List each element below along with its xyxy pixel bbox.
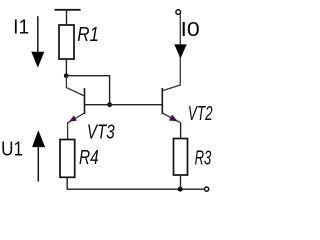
svg-text:R1: R1 [77,23,99,46]
svg-text:I1: I1 [13,16,29,38]
svg-text:R3: R3 [195,147,212,170]
svg-text:U1: U1 [1,137,23,160]
svg-text:VT3: VT3 [87,121,115,144]
svg-text:VT2: VT2 [188,102,213,124]
svg-text:I0: I0 [181,17,200,40]
svg-text:R4: R4 [79,146,99,168]
